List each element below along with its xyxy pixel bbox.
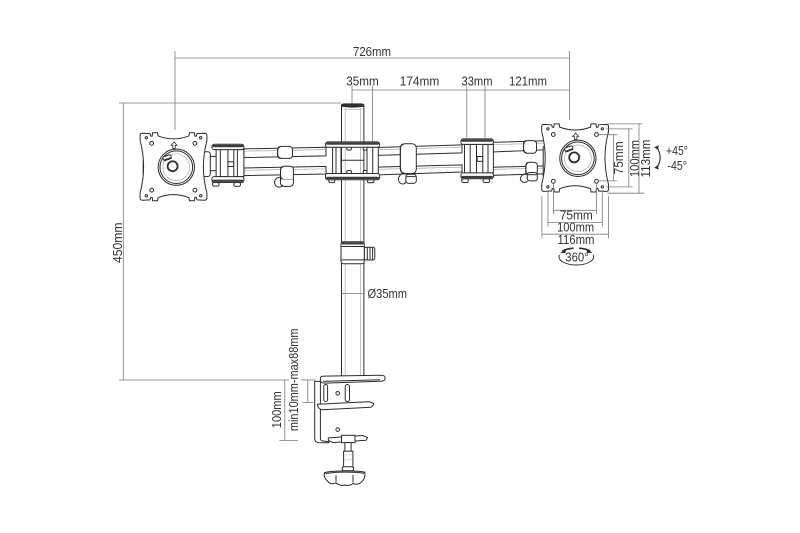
dimension 100mm bottom: [548, 192, 602, 235]
dimension 100mm clamp: [270, 380, 298, 441]
left arm lower tube: [244, 166, 326, 175]
svg-text:450mm: 450mm: [111, 223, 125, 263]
svg-text:360°: 360°: [565, 250, 588, 264]
svg-text:min10mm-max88mm: min10mm-max88mm: [287, 329, 301, 432]
right arm B upper cable clip: [524, 141, 537, 154]
right arm B lower cable clip: [520, 162, 537, 182]
dimension 450mm: [111, 103, 342, 380]
right arm lower tube segment A: [378, 165, 462, 175]
svg-text:35mm: 35mm: [346, 74, 379, 88]
left plate hinge knuckle: [203, 152, 211, 177]
tilt arrows +45/-45: [654, 144, 688, 173]
left arm stub: [200, 156, 217, 170]
svg-text:Ø35mm: Ø35mm: [368, 287, 408, 301]
svg-text:121mm: 121mm: [509, 74, 547, 88]
svg-text:75mm: 75mm: [612, 141, 626, 174]
svg-text:33mm: 33mm: [462, 74, 493, 88]
dimension 75mm bottom: [554, 184, 597, 223]
central joint on pole: [326, 142, 380, 183]
right arm upper tube segment B: [492, 141, 546, 152]
clamp: threaded rod: [344, 443, 353, 468]
rotation 360 ellipse: [559, 248, 594, 265]
clamp: knob: [324, 471, 365, 486]
clamp: C-bracket front band: [315, 381, 329, 443]
left arm lower cable clip: [275, 166, 294, 187]
dimension 726mm: [175, 45, 570, 130]
clamp: rod boss: [342, 435, 356, 442]
dimension 113mm vertical right: [607, 124, 653, 193]
svg-text:116mm: 116mm: [558, 233, 595, 247]
pole collar with knob: [341, 242, 375, 264]
dimension 100mm vertical right: [606, 129, 642, 187]
left plate rear hinge sliver: [143, 159, 148, 177]
elbow bracket: [461, 139, 494, 183]
clamp: screw dot lower: [336, 428, 340, 432]
svg-text:+45°: +45°: [666, 144, 688, 158]
dimension row 35/174/33/121: [346, 74, 569, 141]
svg-text:100mm: 100mm: [270, 391, 284, 428]
right plate hinge knuckle: [543, 146, 550, 179]
clamp: desk plate: [320, 375, 385, 383]
clamp: guide studs: [324, 385, 350, 402]
left hinge bracket: [212, 144, 244, 186]
right arm tall cable clip: [399, 144, 417, 184]
clamp: screw dot upper: [336, 392, 340, 396]
svg-text:726mm: 726mm: [353, 45, 391, 59]
pole: [342, 103, 364, 377]
svg-text:174mm: 174mm: [400, 74, 440, 88]
right arm upper tube segment A: [378, 145, 462, 155]
dimension 116mm bottom: [542, 196, 609, 247]
clamp: middle slider plate: [317, 402, 373, 410]
dimension 75mm vertical right: [599, 135, 626, 181]
clamp: bottom flange: [328, 436, 367, 443]
right arm lower tube segment B: [492, 166, 546, 175]
left VESA plate: [140, 133, 207, 201]
dimension diameter 35mm: [342, 287, 408, 301]
left arm upper cable clip: [278, 146, 293, 158]
dimension min10mm-max88mm: [287, 329, 313, 432]
svg-text:113mm: 113mm: [639, 140, 653, 178]
right VESA plate: [542, 124, 609, 192]
left arm upper tube: [244, 147, 326, 157]
svg-text:-45°: -45°: [668, 159, 688, 173]
clamp: rod collar: [342, 467, 353, 471]
